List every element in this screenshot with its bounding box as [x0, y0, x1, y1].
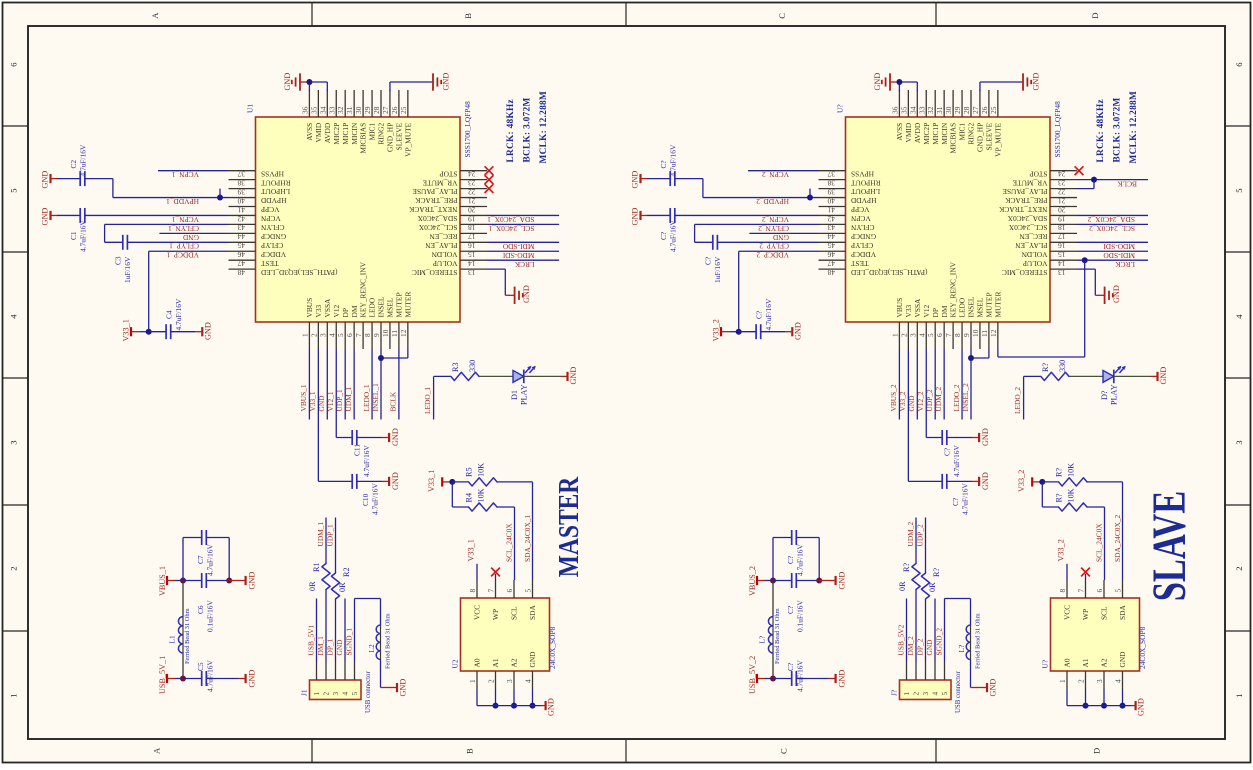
svg-text:AVDD: AVDD [913, 122, 922, 143]
pin 43 CFLYN [229, 223, 256, 225]
wire pin46 VDDCP down to V33 node [739, 250, 819, 252]
wire C2 to pin 40 HPVDD [112, 179, 114, 198]
capacitor C5 4.7uF/16V [183, 678, 202, 680]
svg-text:SCL_24C0X: SCL_24C0X [1008, 223, 1047, 232]
svg-text:SDA_24C0X: SDA_24C0X [1007, 214, 1047, 223]
no-connect X pin 24 [1075, 166, 1084, 175]
svg-text:4: 4 [1234, 314, 1244, 319]
svg-text:DP: DP [931, 308, 940, 317]
resistor R5 10K [452, 481, 468, 483]
svg-text:WP: WP [1081, 609, 1090, 620]
svg-text:41: 41 [827, 205, 835, 214]
pin 3 VSSA [916, 322, 918, 349]
svg-text:LHPOUT: LHPOUT [261, 187, 291, 196]
capacitor C3 1uF/16V between CFLYN and CFLYP [104, 224, 106, 242]
wire WP with no-connect X [1085, 574, 1087, 580]
svg-text:GND: GND [631, 171, 640, 189]
ground earth symbol top-right [1022, 73, 1024, 90]
svg-text:10K: 10K [1067, 463, 1076, 477]
ground earth symbol top-left [299, 73, 301, 90]
svg-text:1: 1 [9, 694, 19, 698]
svg-text:4: 4 [1114, 679, 1123, 683]
pin 11 MUTEP [398, 322, 400, 349]
svg-text:3: 3 [331, 692, 340, 696]
svg-text:47: 47 [237, 259, 245, 268]
svg-text:1: 1 [890, 333, 899, 337]
svg-text:SDA: SDA [528, 605, 537, 620]
svg-text:CFLYN_1: CFLYN_1 [168, 224, 199, 233]
svg-text:C?: C? [755, 311, 764, 319]
svg-text:BCLK: BCLK [389, 391, 398, 411]
svg-text:A: A [152, 747, 162, 754]
pin 28 RING2 [970, 90, 972, 117]
svg-text:37: 37 [827, 170, 835, 179]
svg-text:23: 23 [1058, 178, 1066, 187]
wire pin3 net GND [326, 349, 328, 420]
capacitor C2 4.7uF/16V [49, 174, 51, 183]
svg-text:MSEL: MSEL [386, 297, 395, 317]
pin 17 REC_EN [1050, 232, 1077, 234]
svg-text:VBUS: VBUS [305, 298, 314, 318]
svg-text:MUTER: MUTER [403, 292, 412, 318]
svg-text:GND: GND [522, 285, 531, 303]
svg-text:C5: C5 [196, 662, 205, 671]
svg-text:VDDCP_2: VDDCP_2 [756, 251, 789, 260]
svg-text:C?: C? [786, 663, 795, 671]
svg-text:R5: R5 [465, 467, 474, 477]
EEPROM pin 4 GND [1122, 671, 1124, 690]
svg-text:3: 3 [908, 333, 917, 337]
svg-text:46: 46 [827, 250, 835, 259]
svg-text:PLAY_EN: PLAY_EN [425, 241, 458, 250]
svg-text:0.1uF/16V: 0.1uF/16V [206, 600, 215, 632]
wire BCLK pins 23,22 [1077, 179, 1148, 181]
svg-text:26: 26 [390, 106, 399, 114]
svg-text:35: 35 [309, 106, 318, 114]
svg-text:GND: GND [794, 322, 803, 340]
junction V33 node [736, 329, 742, 335]
J pin 3 [335, 662, 337, 680]
capacitor C1 4.7uF/16V [49, 211, 51, 220]
J1 pin4 wire GND [934, 599, 936, 663]
wire pin6 net UDM_2 [943, 349, 945, 420]
LED D1 PLAY [513, 370, 524, 382]
svg-text:AVDD: AVDD [323, 122, 332, 143]
svg-text:MDO-SDI: MDO-SDI [502, 251, 534, 260]
svg-text:5: 5 [926, 333, 935, 337]
svg-text:DM: DM [350, 305, 359, 317]
svg-text:USB connector: USB connector [955, 671, 962, 713]
inductor L1 Ferried Bead 31 Ohm [182, 581, 184, 617]
svg-text:A0: A0 [473, 658, 482, 667]
svg-text:26: 26 [980, 106, 989, 114]
svg-text:2: 2 [1077, 679, 1086, 683]
svg-text:SDA_24C0X_1: SDA_24C0X_1 [523, 514, 532, 562]
svg-text:VCPP: VCPP [851, 205, 870, 214]
capacitor C? 4.7uF/16V [773, 678, 792, 680]
svg-text:4.7uF/16V: 4.7uF/16V [371, 483, 380, 515]
svg-text:VMID: VMID [314, 122, 323, 142]
wire pin3 net GND [916, 349, 918, 420]
svg-text:INSEL: INSEL [377, 296, 386, 317]
wire pin15 MDO-SDI [487, 250, 559, 252]
svg-text:UDM_1: UDM_1 [344, 387, 353, 412]
capacitor C4 4.7uF/16V [149, 331, 166, 333]
svg-text:CFLYP_1: CFLYP_1 [169, 242, 199, 251]
junction pins 39/40 [217, 195, 223, 201]
J pin 4 [344, 662, 346, 680]
svg-text:UDP_1: UDP_1 [325, 524, 334, 546]
wire pin15 MDI-SDO [1077, 250, 1148, 252]
EEPROM ground rail [476, 690, 478, 706]
svg-text:SCL_24C0X_1: SCL_24C0X_1 [488, 224, 534, 233]
pin 36 AVSS [898, 90, 900, 117]
wire pin5 net UDP_2 [934, 349, 936, 420]
svg-text:VR_MUTE: VR_MUTE [1012, 178, 1047, 187]
LED D? PLAY [1103, 370, 1114, 382]
capacitor C? 4.7uF/16V [772, 538, 774, 581]
svg-text:28: 28 [372, 106, 381, 114]
svg-text:PRE_TRACK: PRE_TRACK [415, 196, 458, 205]
svg-text:V33_1: V33_1 [427, 470, 436, 492]
svg-text:SCL: SCL [510, 606, 519, 620]
svg-text:45: 45 [827, 241, 835, 250]
svg-text:4: 4 [524, 679, 533, 683]
power port USB_5V_1 [166, 674, 168, 683]
wire pin43 CFLYN [695, 223, 819, 225]
pin 4 V12 [335, 322, 337, 349]
svg-text:48: 48 [827, 268, 835, 277]
EEPROM pin 5 SDA [532, 580, 534, 598]
pin 1 VBUS [308, 322, 310, 349]
pin 19 SDA_24C0X [460, 214, 487, 216]
EEPROM U2 24C0X_SOP8 body [461, 598, 550, 671]
svg-text:4.7uF/16V: 4.7uF/16V [174, 298, 183, 330]
wire pin13 to ground [1077, 268, 1095, 270]
wire pin18 SCL_24C0X_1 [487, 223, 559, 225]
svg-text:19: 19 [468, 214, 476, 223]
pin 48 (PATH_SEL)EQ3D_LED [229, 268, 256, 270]
EEPROM pin 6 SCL [513, 580, 515, 598]
svg-text:32: 32 [926, 106, 935, 114]
svg-text:17: 17 [1058, 232, 1066, 241]
svg-text:2: 2 [911, 692, 920, 696]
svg-text:PLAY: PLAY [520, 384, 529, 405]
svg-text:DM_2: DM_2 [906, 636, 915, 656]
svg-text:V12: V12 [922, 304, 931, 317]
svg-text:13: 13 [1058, 268, 1066, 277]
svg-text:0R: 0R [898, 581, 907, 591]
svg-text:24C0X_SOP8: 24C0X_SOP8 [548, 626, 557, 669]
svg-text:DP: DP [341, 308, 350, 317]
pin 14 VOLUP [1050, 259, 1077, 261]
svg-text:GND: GND [772, 233, 789, 242]
pin 41 VCPP [819, 206, 846, 208]
svg-text:6: 6 [345, 333, 354, 337]
EEPROM pin 3 A2 [1103, 671, 1105, 690]
wire pin2 net V33_1 [317, 349, 319, 481]
svg-text:4: 4 [9, 314, 19, 319]
svg-text:D: D [1090, 13, 1100, 19]
svg-text:UDP_1: UDP_1 [335, 389, 344, 411]
svg-text:10K: 10K [477, 488, 486, 502]
capacitor C? 4.7uF/16V [739, 331, 756, 333]
pin 5 DP [344, 322, 346, 349]
svg-text:VOLDN: VOLDN [431, 250, 458, 259]
svg-text:GND: GND [41, 208, 50, 226]
J pin 1 [316, 662, 318, 680]
svg-text:GND_HP: GND_HP [976, 123, 985, 152]
svg-text:PLAY: PLAY [1110, 384, 1119, 405]
pin 18 SCL_24C0X [1050, 223, 1077, 225]
wire pin8 net LEDO_1 [371, 349, 373, 420]
svg-text:0R: 0R [308, 581, 317, 591]
pin 3 VSSA [326, 322, 328, 349]
svg-text:MDO-SDI: MDO-SDI [1103, 242, 1135, 251]
svg-text:L?: L? [957, 645, 966, 653]
pin 29 MIC1 [371, 90, 373, 117]
svg-text:BCLK: BCLK [1117, 179, 1137, 188]
svg-text:C?: C? [704, 257, 713, 265]
svg-text:GND: GND [317, 395, 326, 412]
svg-text:GND: GND [981, 472, 990, 490]
USB connector J? body [900, 680, 952, 700]
svg-text:R1: R1 [312, 562, 321, 572]
svg-text:4.7uF/16V: 4.7uF/16V [206, 660, 215, 692]
svg-text:32: 32 [336, 106, 345, 114]
wire pin6 net UDM_1 [353, 349, 355, 420]
svg-text:4.7uF/16V: 4.7uF/16V [669, 144, 678, 176]
svg-text:MCLK: 12.288M: MCLK: 12.288M [539, 91, 549, 164]
svg-text:SDA_24C0X_1: SDA_24C0X_1 [487, 215, 535, 224]
junction pin36 GND [896, 79, 902, 85]
svg-text:C11: C11 [353, 444, 362, 456]
svg-text:SCL_24C0X_2: SCL_24C0X_2 [1089, 224, 1135, 233]
pin 29 MIC1 [961, 90, 963, 117]
svg-text:(PATH_SEL)EQ3D_LED: (PATH_SEL)EQ3D_LED [260, 268, 337, 277]
svg-text:B: B [463, 13, 473, 19]
svg-text:0R: 0R [928, 582, 937, 592]
svg-text:46: 46 [237, 250, 245, 259]
svg-text:33: 33 [917, 106, 926, 114]
svg-text:STOP: STOP [440, 169, 458, 178]
svg-text:V33_2: V33_2 [1057, 539, 1066, 561]
pin 45 CFLYP [819, 241, 846, 243]
svg-text:20: 20 [468, 205, 476, 214]
pin 25 VP_MUTE [407, 90, 409, 117]
wire pin37 net VCPN_1 [158, 170, 229, 172]
J pin 3 [925, 662, 927, 680]
svg-text:PLAY_PAUSE: PLAY_PAUSE [412, 187, 458, 196]
wire pin1 net VBUS_1 [308, 349, 310, 420]
wire pin44 GNDCP net GND [749, 232, 818, 234]
pin 12 MUTER [407, 322, 409, 349]
svg-text:USB_5V_1: USB_5V_1 [158, 656, 167, 694]
svg-text:11: 11 [980, 330, 989, 337]
svg-text:C?: C? [786, 556, 795, 564]
svg-text:A0: A0 [1063, 658, 1072, 667]
power port V33_2 pullups [1031, 477, 1033, 486]
svg-text:29: 29 [363, 106, 372, 114]
pin 23 VR_MUTE [1050, 179, 1077, 181]
svg-text:GND: GND [631, 208, 640, 226]
junction C6/C7 [816, 578, 822, 584]
svg-text:VDDCP: VDDCP [851, 250, 876, 259]
capacitor C11 4.7uF/16V on V12 rail [336, 437, 352, 439]
wire net LEDO_1 to LED [433, 376, 435, 419]
svg-text:7: 7 [487, 589, 496, 593]
svg-text:D?: D? [1100, 390, 1109, 400]
svg-text:LRCK: LRCK [1115, 260, 1135, 269]
svg-text:8: 8 [953, 333, 962, 337]
resistor R2 0R on DP [335, 599, 337, 662]
pin 44 GNDCP [229, 232, 256, 234]
svg-text:CFLYP_2: CFLYP_2 [759, 242, 789, 251]
svg-text:V33_1: V33_1 [308, 391, 317, 411]
pin 26 SLEEVE [988, 90, 990, 117]
pin 7 KEY_RENC_INV [362, 322, 364, 349]
svg-text:37: 37 [237, 170, 245, 179]
svg-text:V12_2: V12_2 [916, 391, 925, 411]
svg-text:VSSA: VSSA [913, 298, 922, 318]
svg-text:VSSA: VSSA [323, 298, 332, 318]
svg-text:GND_HP: GND_HP [386, 123, 395, 152]
svg-text:SDA: SDA [1118, 605, 1127, 620]
svg-text:V33_1: V33_1 [121, 319, 130, 341]
svg-text:SCL: SCL [1100, 606, 1109, 620]
ground earth symbol pin13 [1104, 287, 1106, 304]
svg-text:SGND_2: SGND_2 [934, 628, 943, 656]
svg-text:14: 14 [1058, 259, 1066, 268]
svg-text:R?: R? [1055, 493, 1064, 502]
svg-text:36: 36 [300, 106, 309, 114]
svg-text:VBUS: VBUS [895, 298, 904, 318]
resistor R? 10K [1042, 481, 1058, 483]
ground earth symbol pin13 [514, 287, 516, 304]
svg-text:U1: U1 [246, 104, 255, 113]
junction pullup node [1039, 479, 1045, 485]
svg-text:GND: GND [1032, 73, 1041, 91]
svg-text:RHPOUT: RHPOUT [261, 178, 291, 187]
svg-text:C?: C? [951, 498, 960, 506]
svg-text:CFLYN: CFLYN [850, 223, 874, 232]
svg-text:MICBIAS: MICBIAS [359, 123, 368, 154]
junction V33 node [146, 329, 152, 335]
J pin 2 [915, 662, 917, 680]
svg-text:SDA_24C0X_2: SDA_24C0X_2 [1087, 215, 1135, 224]
pin 45 CFLYP [229, 241, 256, 243]
svg-text:R?: R? [1055, 468, 1064, 477]
svg-text:V33_2: V33_2 [1017, 470, 1026, 492]
pin 42 VCPN [229, 214, 256, 216]
svg-text:U?: U? [836, 104, 845, 113]
pin 38 RHPOUT [819, 179, 846, 181]
svg-text:SDA_24C0X: SDA_24C0X [417, 214, 457, 223]
EEPROM ground rail [1066, 690, 1068, 706]
svg-text:17: 17 [468, 232, 476, 241]
svg-text:CFLYP: CFLYP [261, 241, 283, 250]
svg-text:5: 5 [1114, 589, 1123, 593]
pin 10 MSEL [979, 322, 981, 349]
svg-text:RHPOUT: RHPOUT [851, 178, 881, 187]
pin 2 V33 [907, 322, 909, 349]
svg-text:5: 5 [940, 692, 949, 696]
svg-text:MICBIAS: MICBIAS [949, 123, 958, 154]
svg-text:A2: A2 [510, 658, 519, 667]
svg-text:VCPN_2: VCPN_2 [762, 215, 789, 224]
wire pin12 to INSEL junction [407, 349, 409, 358]
pin 27 GND_HP [979, 90, 981, 117]
svg-text:VBUS_2: VBUS_2 [889, 384, 898, 411]
svg-text:VBUS_2: VBUS_2 [748, 566, 757, 596]
svg-text:3: 3 [921, 692, 930, 696]
svg-text:LEDO_1: LEDO_1 [423, 387, 432, 414]
svg-text:RING2: RING2 [967, 123, 976, 145]
svg-text:HPVDD_2: HPVDD_2 [756, 197, 789, 206]
svg-text:11: 11 [390, 330, 399, 337]
svg-text:R2: R2 [342, 567, 351, 577]
svg-text:HPVDD: HPVDD [850, 196, 876, 205]
pin 9 INSEL [970, 322, 972, 349]
EEPROM pin 6 SCL [1103, 580, 1105, 598]
svg-text:VP_MUTE: VP_MUTE [993, 122, 1002, 157]
pin 10 MSEL [389, 322, 391, 349]
junction pin36 GND [306, 79, 312, 85]
svg-text:GND: GND [873, 73, 882, 91]
svg-text:5: 5 [524, 589, 533, 593]
svg-text:1: 1 [1058, 679, 1067, 683]
junction INSEL [968, 355, 974, 361]
pin 18 SCL_24C0X [460, 223, 487, 225]
svg-text:GNDCP: GNDCP [261, 232, 286, 241]
junction VBUS [770, 578, 776, 584]
svg-text:B: B [465, 748, 475, 754]
EEPROM pin 4 GND [532, 671, 534, 690]
resistor R? 0R on DM [915, 590, 917, 663]
svg-text:GND: GND [838, 572, 847, 590]
pin 17 REC_EN [460, 232, 487, 234]
svg-text:LRCK: LRCK [514, 260, 534, 269]
capacitor C? 1uF/16V between CFLYN and CFLYP [694, 224, 696, 242]
svg-text:1: 1 [300, 333, 309, 337]
EEPROM pin 1 A0 [476, 671, 478, 690]
pin 5 DP [934, 322, 936, 349]
svg-text:2: 2 [309, 333, 318, 337]
svg-text:R?: R? [932, 568, 941, 577]
svg-text:Ferried Bead 31 Ohm: Ferried Bead 31 Ohm [774, 608, 781, 664]
svg-text:A1: A1 [491, 658, 500, 667]
svg-text:27: 27 [381, 106, 390, 114]
svg-text:DM_1: DM_1 [316, 636, 325, 656]
pin 20 NEXT_TRACK [460, 206, 487, 208]
svg-text:VP_MUTE: VP_MUTE [403, 122, 412, 157]
pin 41 VCPP [229, 206, 256, 208]
svg-text:V33_1: V33_1 [467, 539, 476, 561]
svg-text:7: 7 [354, 333, 363, 337]
svg-text:10K: 10K [477, 463, 486, 477]
svg-text:28: 28 [962, 106, 971, 114]
svg-text:4: 4 [327, 333, 336, 337]
pin 16 PLAY_EN [460, 241, 487, 243]
EEPROM pin 3 A2 [513, 671, 515, 690]
svg-text:30: 30 [944, 106, 953, 114]
svg-text:12: 12 [989, 329, 998, 337]
svg-text:VR_MUTE: VR_MUTE [422, 178, 457, 187]
pin 4 V12 [925, 322, 927, 349]
svg-text:LEDO_2: LEDO_2 [1013, 387, 1022, 414]
wire pin44 GNDCP net GND [159, 232, 228, 234]
svg-text:SLEEVE: SLEEVE [985, 122, 994, 150]
